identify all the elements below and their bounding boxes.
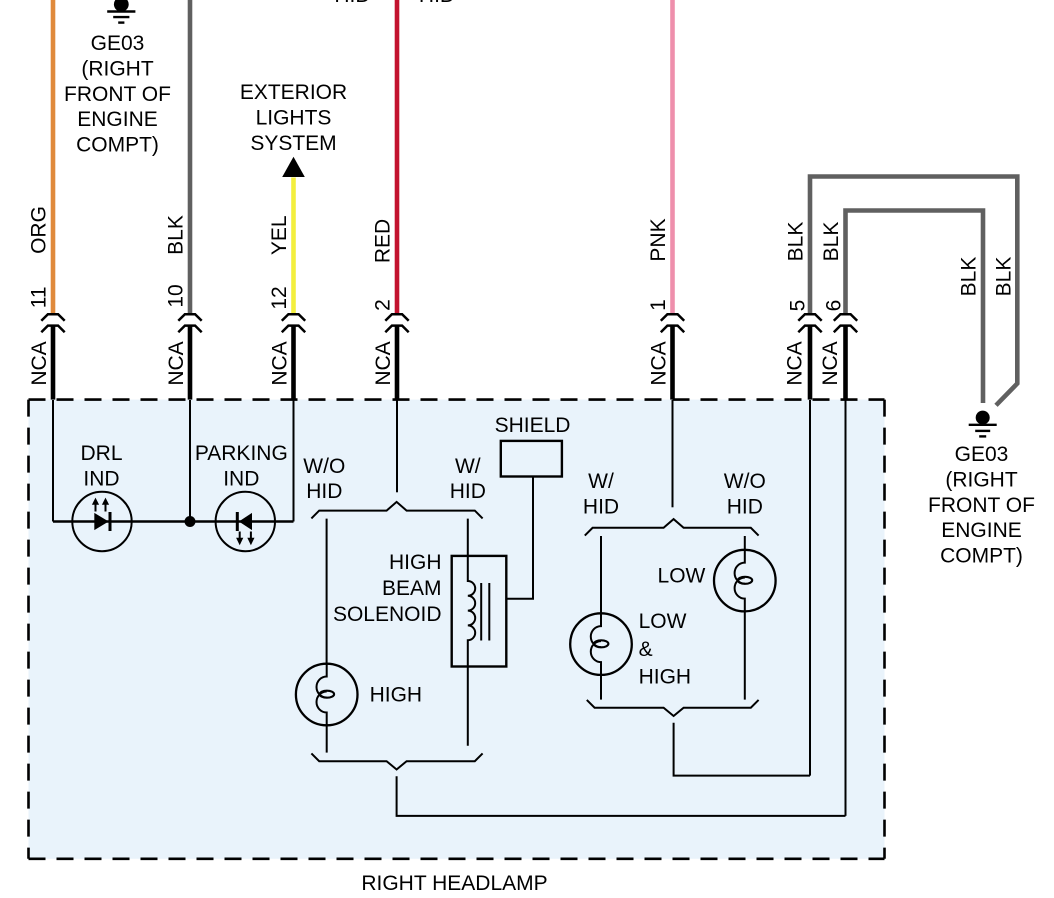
svg-text:PNK: PNK (647, 218, 670, 261)
bulb LOW & HIGH (570, 613, 632, 675)
svg-text:2: 2 (372, 299, 395, 311)
svg-text:HIGH: HIGH (389, 551, 442, 574)
svg-text:6: 6 (823, 300, 846, 312)
wire pin 6 inside box (845, 400, 847, 816)
connector 12 (282, 314, 305, 332)
svg-text:NCA: NCA (372, 341, 395, 385)
svg-text:FRONT OF: FRONT OF (928, 494, 1035, 517)
brace join below HIGH (left group) (311, 753, 482, 769)
svg-text:GE03: GE03 (91, 32, 145, 55)
svg-text:W/: W/ (455, 455, 481, 478)
svg-text:HID: HID (727, 495, 763, 518)
wire BLK (pin 5) to right ground (810, 177, 1017, 406)
connector 6 (834, 314, 857, 332)
svg-text:IND: IND (83, 467, 119, 490)
wire NCA (pin 5) (808, 326, 813, 401)
wire ORG (pin 11) (51, 0, 56, 315)
svg-text:BLK: BLK (992, 257, 1015, 297)
solenoid body (452, 556, 507, 667)
wire BLK (pin 10) (188, 0, 193, 315)
wire below LOW & HIGH bulb (600, 675, 602, 700)
svg-text:LOW: LOW (639, 610, 687, 633)
svg-text:HID: HID (306, 480, 342, 503)
wire NCA (pin 2) (395, 326, 400, 401)
svg-text:HID: HID (419, 0, 455, 7)
wire shield to solenoid (506, 477, 533, 599)
ground GE03 (right) (969, 411, 997, 437)
ground GE03 (top left) (107, 0, 135, 23)
svg-text:RIGHT HEADLAMP: RIGHT HEADLAMP (361, 872, 547, 895)
label W/O HID (left) (303, 455, 345, 503)
DRL indicator LED (72, 492, 131, 551)
svg-text:11: 11 (28, 286, 51, 308)
label EXTERIOR LIGHTS SYSTEM (240, 81, 347, 155)
svg-text:SOLENOID: SOLENOID (333, 603, 442, 626)
svg-text:1: 1 (647, 299, 670, 311)
svg-text:NCA: NCA (819, 341, 842, 385)
brace join below LOW bulbs (right group) (587, 700, 759, 716)
svg-text:HID: HID (334, 0, 370, 7)
svg-text:BLK: BLK (958, 257, 981, 297)
svg-text:FRONT OF: FRONT OF (64, 83, 171, 106)
svg-text:HID: HID (583, 495, 619, 518)
svg-text:W/O: W/O (303, 455, 345, 478)
brace split W/ HID vs W/O HID (right group) (585, 519, 759, 536)
svg-text:SYSTEM: SYSTEM (250, 132, 336, 155)
svg-text:GE03: GE03 (955, 443, 1009, 466)
label DRL IND (80, 442, 122, 490)
svg-text:IND: IND (223, 467, 259, 490)
svg-text:W/: W/ (588, 470, 614, 493)
wire below LOW bulb (744, 611, 746, 699)
wire below HIGH bulb (326, 725, 328, 752)
wire W/ branch with solenoid coil (468, 519, 475, 746)
svg-text:BEAM: BEAM (382, 577, 442, 600)
solenoid core lines (480, 583, 482, 641)
wire PNK (pin 1) (670, 0, 675, 315)
connector 10 (178, 314, 201, 332)
wire pin 12 inside box (293, 400, 295, 522)
wire YEL (pin 12) (291, 178, 296, 316)
wire W/ branch down to LOW & HIGH bulb (600, 536, 602, 613)
svg-text:PARKING: PARKING (195, 442, 288, 465)
connector 11 (41, 314, 64, 332)
svg-text:SHIELD: SHIELD (495, 414, 571, 437)
svg-text:NCA: NCA (165, 341, 188, 385)
svg-text:YEL: YEL (268, 215, 291, 255)
svg-text:&: & (639, 638, 653, 661)
label LOW & HIGH (639, 610, 692, 689)
svg-text:COMPT): COMPT) (940, 545, 1023, 568)
wire RED (pin 2) (395, 0, 400, 315)
connector 1 (661, 314, 684, 332)
label W/ HID (left) (450, 455, 486, 503)
wire pin 10 inside box (189, 400, 191, 522)
wire NCA (pin 1) (670, 326, 675, 401)
svg-text:(RIGHT: (RIGHT (81, 57, 153, 80)
svg-text:NCA: NCA (648, 341, 671, 385)
wire BLK (pin 6) to right ground (846, 211, 984, 404)
svg-text:NCA: NCA (784, 341, 807, 385)
svg-text:RED: RED (372, 219, 395, 263)
wire NCA (pin 6) (843, 326, 848, 401)
svg-text:BLK: BLK (785, 222, 808, 262)
svg-text:HIGH: HIGH (639, 666, 692, 689)
svg-text:5: 5 (787, 300, 810, 312)
svg-text:(RIGHT: (RIGHT (945, 468, 1017, 491)
shield box (501, 441, 562, 477)
svg-text:12: 12 (268, 286, 291, 309)
svg-text:NCA: NCA (269, 341, 292, 385)
svg-text:W/O: W/O (724, 470, 766, 493)
svg-text:HIGH: HIGH (370, 684, 423, 707)
svg-text:DRL: DRL (80, 442, 122, 465)
brace split W/O HID vs W/ HID (left group) (311, 502, 482, 519)
connector 5 (798, 314, 821, 332)
wire NCA (pin 10) (188, 326, 193, 401)
wire pin 11 inside box (52, 400, 54, 522)
connector 2 (385, 314, 408, 332)
label W/O HID (right) (724, 470, 766, 518)
bulb HIGH (296, 664, 358, 726)
wire pin 5 inside box (809, 400, 811, 776)
label HIGH BEAM SOLENOID (333, 551, 442, 626)
label PARKING IND (195, 442, 288, 490)
RIGHT HEADLAMP box (dashed, blue fill) (29, 400, 885, 859)
svg-text:10: 10 (165, 284, 188, 307)
wire NCA (pin 11) (51, 326, 56, 401)
svg-text:ENGINE: ENGINE (941, 519, 1022, 542)
wire from left join brace to bottom rail (397, 776, 846, 816)
label GE03 (RIGHT FRONT OF ENGINE COMPT) right (928, 443, 1035, 568)
svg-text:NCA: NCA (28, 341, 51, 385)
wire DRL/PARKING row (53, 520, 294, 522)
label W/ HID (right) (583, 470, 619, 518)
junction dot (185, 516, 196, 527)
svg-text:LOW: LOW (658, 564, 706, 587)
svg-text:COMPT): COMPT) (76, 134, 159, 157)
bulb LOW (714, 550, 776, 612)
svg-text:BLK: BLK (165, 215, 188, 255)
svg-text:EXTERIOR: EXTERIOR (240, 81, 347, 104)
svg-text:HID: HID (450, 480, 486, 503)
svg-text:LIGHTS: LIGHTS (256, 106, 332, 129)
wire pin 2 inside box (396, 400, 398, 492)
svg-text:BLK: BLK (820, 222, 843, 262)
PARKING indicator LED (216, 492, 275, 551)
wire pin 1 inside box (672, 400, 674, 507)
arrow to exterior lights system (282, 157, 305, 177)
wire W/O branch down to HIGH bulb (326, 519, 328, 664)
svg-text:ORG: ORG (28, 206, 51, 254)
wire W/O branch down to LOW bulb (744, 536, 746, 550)
wire from right join brace to pin 5 (674, 723, 810, 776)
svg-text:ENGINE: ENGINE (77, 108, 158, 131)
label GE03 (RIGHT FRONT OF ENGINE COMPT) left (64, 32, 171, 157)
wire NCA (pin 12) (291, 326, 296, 401)
